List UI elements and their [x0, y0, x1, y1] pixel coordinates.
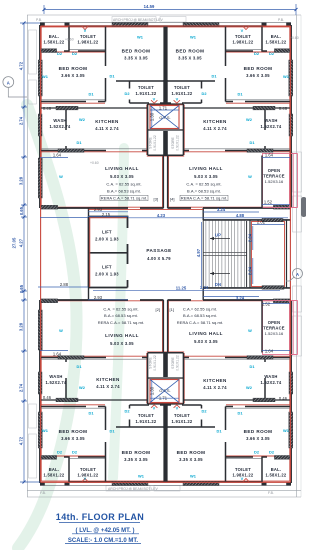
- svg-text:0.46: 0.46: [279, 396, 288, 401]
- svg-text:2.88: 2.88: [60, 282, 69, 287]
- svg-text:1.58X1.22: 1.58X1.22: [44, 40, 65, 45]
- svg-text:RERA C.A.= 58.71 sq.mt.: RERA C.A.= 58.71 sq.mt.: [177, 320, 223, 325]
- svg-text:TOILET: TOILET: [235, 34, 251, 39]
- svg-text:D1: D1: [237, 410, 243, 415]
- svg-text:1.71: 1.71: [159, 105, 168, 110]
- svg-text:STORE: STORE: [149, 356, 153, 368]
- svg-text:1.52: 1.52: [264, 199, 273, 204]
- svg-text:D1: D1: [76, 140, 82, 145]
- svg-text:BAL.: BAL.: [49, 34, 60, 39]
- svg-text:D1: D1: [211, 74, 217, 79]
- svg-text:V: V: [176, 406, 179, 411]
- svg-text:ARCH PROJ @ BEAM BOT LEV: ARCH PROJ @ BEAM BOT LEV: [108, 487, 158, 491]
- svg-text:1.71: 1.71: [159, 396, 168, 401]
- svg-text:W1: W1: [138, 474, 145, 479]
- svg-text:BED ROOM: BED ROOM: [59, 66, 88, 71]
- svg-text:WASH: WASH: [264, 374, 277, 379]
- svg-text:1.52X3.16: 1.52X3.16: [265, 179, 284, 184]
- svg-text:0.46: 0.46: [279, 106, 288, 111]
- svg-text:+0.60: +0.60: [65, 38, 74, 42]
- svg-text:[4]: [4]: [170, 196, 174, 201]
- svg-text:4.11 X 2.74: 4.11 X 2.74: [95, 126, 119, 131]
- svg-text:V: V: [241, 476, 244, 481]
- svg-text:W: W: [59, 174, 63, 179]
- svg-text:[3]: [3]: [154, 196, 158, 201]
- svg-text:B.A.= 68.53 sq.mt.: B.A.= 68.53 sq.mt.: [183, 313, 217, 318]
- svg-text:5.03 X 3.05: 5.03 X 3.05: [110, 174, 134, 179]
- svg-text:D1: D1: [88, 410, 94, 415]
- svg-text:3.35 X 3.05: 3.35 X 3.05: [124, 457, 148, 462]
- svg-text:LIFT: LIFT: [102, 230, 112, 235]
- svg-text:A: A: [7, 81, 10, 86]
- svg-text:[1]: [1]: [170, 307, 174, 312]
- svg-text:1.64: 1.64: [265, 349, 274, 354]
- svg-text:1.58X1.22: 1.58X1.22: [266, 40, 287, 45]
- svg-text:0.91X1.22: 0.91X1.22: [176, 135, 180, 151]
- svg-text:OPEN: OPEN: [268, 320, 281, 325]
- svg-text:W: W: [248, 174, 252, 179]
- svg-text:BED ROOM: BED ROOM: [122, 450, 151, 455]
- svg-text:UP: UP: [215, 233, 221, 238]
- svg-text:PASSAGE: PASSAGE: [146, 248, 171, 253]
- svg-text:3.24: 3.24: [217, 207, 226, 212]
- svg-text:D2: D2: [201, 91, 207, 96]
- svg-text:D2: D2: [254, 51, 260, 56]
- svg-text:W2: W2: [246, 117, 253, 122]
- svg-text:TOILET: TOILET: [138, 85, 154, 90]
- svg-text:D2: D2: [254, 450, 260, 455]
- svg-text:0.65: 0.65: [19, 206, 24, 215]
- svg-text:3.66 X 3.05: 3.66 X 3.05: [246, 436, 270, 441]
- svg-text:V: V: [153, 406, 156, 411]
- svg-text:D1: D1: [76, 364, 82, 369]
- svg-text:1.64: 1.64: [265, 152, 274, 157]
- svg-text:W: W: [59, 328, 63, 333]
- svg-text:1.52X2.74: 1.52X2.74: [261, 380, 282, 385]
- svg-text:2.24: 2.24: [247, 266, 252, 275]
- svg-text:4.72: 4.72: [19, 61, 24, 70]
- svg-text:TOILET: TOILET: [80, 467, 96, 472]
- svg-text:BED ROOM: BED ROOM: [244, 429, 273, 434]
- svg-text:D2: D2: [201, 409, 207, 414]
- svg-text:LIFT: LIFT: [102, 265, 112, 270]
- svg-text:C.A. = 62.55 sq.mt.: C.A. = 62.55 sq.mt.: [106, 182, 141, 187]
- svg-text:W2: W2: [79, 117, 86, 122]
- svg-text:1.52X2.74: 1.52X2.74: [46, 380, 67, 385]
- svg-text:0.46: 0.46: [43, 395, 52, 400]
- svg-text:1.91X1.22: 1.91X1.22: [172, 91, 193, 96]
- svg-text:D1: D1: [249, 140, 255, 145]
- svg-text:BED ROOM: BED ROOM: [176, 49, 205, 54]
- svg-text:3.28: 3.28: [19, 322, 24, 331]
- svg-text:( LVL. @ +42.05 MT. ): ( LVL. @ +42.05 MT. ): [76, 528, 135, 534]
- svg-text:D2: D2: [72, 51, 78, 56]
- svg-text:1.58X1.22: 1.58X1.22: [266, 473, 287, 478]
- svg-text:W1: W1: [42, 428, 49, 433]
- svg-text:B.A.= 68.53 sq.mt.: B.A.= 68.53 sq.mt.: [104, 313, 138, 318]
- svg-text:0.91X1.22: 0.91X1.22: [153, 135, 157, 151]
- svg-text:D1: D1: [109, 429, 115, 434]
- svg-text:B.A.= 68.53 sq.mt.: B.A.= 68.53 sq.mt.: [107, 189, 141, 194]
- svg-text:2.00 X 1.93: 2.00 X 1.93: [95, 237, 119, 242]
- svg-text:4.11 X 2.74: 4.11 X 2.74: [203, 126, 227, 131]
- svg-text:4.72: 4.72: [19, 436, 24, 445]
- svg-text:W1: W1: [283, 74, 290, 79]
- svg-text:D2: D2: [124, 91, 130, 96]
- svg-text:+0.60: +0.60: [290, 36, 299, 40]
- svg-text:5.03 X 3.05: 5.03 X 3.05: [110, 341, 134, 346]
- svg-text:1.52X3.16: 1.52X3.16: [265, 331, 284, 336]
- svg-text:14th. FLOOR PLAN: 14th. FLOOR PLAN: [56, 512, 144, 522]
- svg-text:C.A.= 62.55 sq.mt.: C.A.= 62.55 sq.mt.: [183, 307, 217, 312]
- svg-text:2.74: 2.74: [19, 116, 24, 125]
- svg-text:D2: D2: [72, 450, 78, 455]
- svg-text:1.52X2.74: 1.52X2.74: [261, 124, 282, 129]
- svg-text:0.91X1.22: 0.91X1.22: [153, 355, 157, 371]
- svg-text:1.30: 1.30: [149, 386, 154, 395]
- svg-text:D1: D1: [109, 74, 115, 79]
- svg-text:0.46: 0.46: [43, 106, 52, 111]
- svg-text:TOILET: TOILET: [174, 85, 190, 90]
- svg-text:TERRACE: TERRACE: [263, 326, 285, 331]
- svg-text:KITCHEN: KITCHEN: [95, 119, 119, 124]
- svg-text:1.98X1.22: 1.98X1.22: [78, 473, 99, 478]
- svg-text:DN: DN: [215, 282, 221, 287]
- svg-text:W2: W2: [246, 385, 253, 390]
- svg-text:O.T.S.: O.T.S.: [159, 115, 170, 120]
- svg-text:[2]: [2]: [156, 307, 160, 312]
- svg-text:0.65: 0.65: [19, 284, 24, 293]
- svg-text:ARCH PROJ @ BEAM BOT LEV: ARCH PROJ @ BEAM BOT LEV: [113, 18, 163, 22]
- svg-text:D2: D2: [269, 450, 275, 455]
- svg-text:1.91X1.22: 1.91X1.22: [172, 419, 193, 424]
- svg-text:1.58X1.22: 1.58X1.22: [44, 473, 65, 478]
- svg-text:3.66 X 3.05: 3.66 X 3.05: [61, 436, 85, 441]
- svg-text:D1: D1: [237, 91, 243, 96]
- svg-text:1.98X1.22: 1.98X1.22: [233, 40, 254, 45]
- svg-text:STORE: STORE: [171, 356, 175, 368]
- svg-text:27.05: 27.05: [12, 237, 17, 248]
- svg-text:4.97: 4.97: [196, 248, 201, 257]
- svg-text:4.11 X 2.74: 4.11 X 2.74: [96, 384, 120, 389]
- svg-text:BED ROOM: BED ROOM: [177, 450, 206, 455]
- svg-text:3.35 X 3.05: 3.35 X 3.05: [179, 457, 203, 462]
- svg-text:D2: D2: [269, 51, 275, 56]
- svg-text:TERRACE: TERRACE: [263, 174, 285, 179]
- svg-text:4.27: 4.27: [19, 238, 24, 247]
- svg-text:1.98X1.22: 1.98X1.22: [78, 40, 99, 45]
- svg-text:D1: D1: [216, 429, 222, 434]
- svg-text:SCALE:- 1.0 CM.=1.0 MT.: SCALE:- 1.0 CM.=1.0 MT.: [68, 538, 139, 544]
- svg-text:V: V: [84, 28, 87, 33]
- svg-text:D1: D1: [249, 364, 255, 369]
- svg-text:+0.60: +0.60: [90, 161, 99, 165]
- svg-text:W1: W1: [42, 74, 49, 79]
- svg-text:OPEN: OPEN: [268, 168, 281, 173]
- svg-text:1.30: 1.30: [149, 112, 154, 121]
- svg-text:0.91X1.22: 0.91X1.22: [176, 355, 180, 371]
- svg-text:BAL.: BAL.: [271, 467, 282, 472]
- svg-text:1.64: 1.64: [53, 152, 62, 157]
- svg-text:BED ROOM: BED ROOM: [59, 429, 88, 434]
- svg-text:F.B.: F.B.: [268, 491, 274, 495]
- svg-text:3.35 X 3.05: 3.35 X 3.05: [124, 56, 148, 61]
- svg-text:F.B.: F.B.: [40, 491, 46, 495]
- svg-text:2.93: 2.93: [94, 295, 103, 300]
- svg-text:5.03 X 3.05: 5.03 X 3.05: [194, 174, 218, 179]
- svg-text:D2: D2: [57, 450, 63, 455]
- svg-text:C.A. = 62.55 sq.mt.: C.A. = 62.55 sq.mt.: [103, 307, 138, 312]
- svg-text:1.91X1.22: 1.91X1.22: [136, 91, 157, 96]
- svg-text:B.A.= 68.53 sq.mt.: B.A.= 68.53 sq.mt.: [187, 189, 221, 194]
- svg-text:2.02: 2.02: [257, 220, 266, 225]
- svg-text:2.15: 2.15: [102, 212, 111, 217]
- svg-text:RERA C.A.= 58.71 sq.mt.: RERA C.A.= 58.71 sq.mt.: [181, 196, 227, 201]
- svg-text:W1: W1: [283, 428, 290, 433]
- svg-text:RERA C.A.= 58.71 sq.mt.: RERA C.A.= 58.71 sq.mt.: [101, 196, 147, 201]
- svg-text:W1: W1: [137, 35, 144, 40]
- svg-text:D2: D2: [57, 51, 63, 56]
- svg-text:BED ROOM: BED ROOM: [122, 49, 151, 54]
- svg-text:3.24: 3.24: [200, 285, 209, 290]
- svg-text:V: V: [176, 97, 179, 102]
- svg-text:WASH: WASH: [264, 118, 277, 123]
- svg-text:WASH: WASH: [53, 118, 66, 123]
- svg-text:W: W: [248, 328, 252, 333]
- svg-text:LIVING HALL: LIVING HALL: [189, 331, 223, 336]
- svg-text:5.03 X 3.05: 5.03 X 3.05: [194, 339, 218, 344]
- svg-text:A: A: [296, 272, 299, 277]
- svg-text:LIVING HALL: LIVING HALL: [105, 166, 139, 171]
- svg-text:W1: W1: [190, 35, 197, 40]
- svg-text:LIVING HALL: LIVING HALL: [189, 166, 223, 171]
- svg-text:RERA C.A.= 58.71 sq.mt.: RERA C.A.= 58.71 sq.mt.: [98, 320, 144, 325]
- svg-text:KITCHEN: KITCHEN: [203, 119, 227, 124]
- svg-text:1.52: 1.52: [262, 301, 271, 306]
- svg-text:D2: D2: [124, 409, 130, 414]
- svg-text:BED ROOM: BED ROOM: [244, 66, 273, 71]
- svg-text:14.59: 14.59: [144, 4, 155, 9]
- svg-text:BAL.: BAL.: [49, 467, 60, 472]
- svg-text:O.T.S.: O.T.S.: [159, 388, 170, 393]
- svg-text:4.23: 4.23: [157, 213, 166, 218]
- svg-text:2.74: 2.74: [19, 383, 24, 392]
- svg-text:STORE: STORE: [149, 136, 153, 148]
- svg-text:1.64: 1.64: [53, 351, 62, 356]
- svg-text:3.66 X 3.05: 3.66 X 3.05: [246, 73, 270, 78]
- svg-text:BAL.: BAL.: [271, 34, 282, 39]
- svg-text:1.52X2.74: 1.52X2.74: [50, 124, 71, 129]
- svg-text:KITCHEN: KITCHEN: [96, 377, 120, 382]
- svg-text:P.B.: P.B.: [278, 18, 284, 22]
- svg-text:4.88: 4.88: [236, 213, 245, 218]
- svg-text:3.24: 3.24: [236, 296, 245, 301]
- svg-text:11.25: 11.25: [176, 285, 187, 290]
- svg-text:TOILET: TOILET: [138, 413, 154, 418]
- svg-text:4.00 X 5.79: 4.00 X 5.79: [147, 256, 171, 261]
- svg-text:TOILET: TOILET: [235, 467, 251, 472]
- svg-text:2.24: 2.24: [247, 233, 252, 242]
- svg-text:3.28: 3.28: [19, 176, 24, 185]
- svg-text:KITCHEN: KITCHEN: [203, 378, 227, 383]
- svg-text:V: V: [84, 476, 87, 481]
- svg-text:V: V: [153, 97, 156, 102]
- svg-text:3.35 X 3.05: 3.35 X 3.05: [178, 56, 202, 61]
- svg-text:TOILET: TOILET: [80, 34, 96, 39]
- svg-text:D1: D1: [88, 91, 94, 96]
- svg-text:P.B.: P.B.: [36, 18, 42, 22]
- svg-text:2.00 X 1.93: 2.00 X 1.93: [95, 272, 119, 277]
- svg-text:W1: W1: [190, 474, 197, 479]
- svg-text:WASH: WASH: [49, 374, 62, 379]
- svg-text:LIVING HALL: LIVING HALL: [105, 333, 139, 338]
- svg-text:STORE: STORE: [171, 136, 175, 148]
- svg-text:TOILET: TOILET: [174, 413, 190, 418]
- svg-text:3.66 X 3.05: 3.66 X 3.05: [61, 73, 85, 78]
- svg-text:C.A. = 62.55 sq.mt.: C.A. = 62.55 sq.mt.: [186, 182, 221, 187]
- svg-text:4.11 X 2.74: 4.11 X 2.74: [203, 385, 227, 390]
- svg-text:1.91X1.22: 1.91X1.22: [136, 419, 157, 424]
- svg-text:V: V: [241, 28, 244, 33]
- svg-text:W2: W2: [79, 385, 86, 390]
